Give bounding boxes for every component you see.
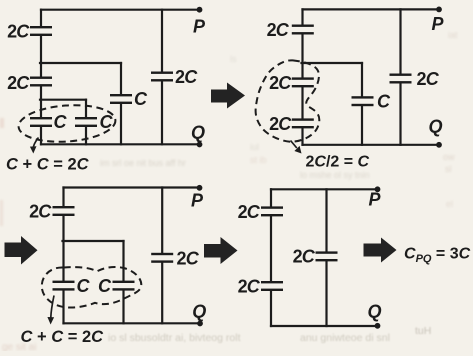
capacitor C (panel3, parallel pair left) xyxy=(53,281,75,291)
capacitor 2C (panel1, left branch lower) xyxy=(30,77,52,87)
capacitor 2C (panel2, series pair lower) xyxy=(292,118,314,128)
svg-text:anu gniwteoe di snl: anu gniwteoe di snl xyxy=(300,332,390,344)
svg-text:CPQ = 3C: CPQ = 3C xyxy=(404,246,471,266)
annotation leader arrow from ellipse to equation (panel1) xyxy=(30,138,39,154)
wire: panel3 right branch segment (above 2C) xyxy=(161,188,163,253)
annotation: dashed peanut loop around the two parallel C capacitors (panel3) xyxy=(42,267,142,308)
capacitor 2C (panel2, left branch top) xyxy=(292,25,314,35)
capacitor 2C (panel3, right branch) xyxy=(151,253,173,263)
svg-text:C: C xyxy=(77,276,91,296)
node P: terminal dot xyxy=(197,7,203,13)
svg-text:Q: Q xyxy=(192,301,206,321)
svg-text:2C: 2C xyxy=(175,67,198,87)
block arrow: to final result xyxy=(364,238,397,263)
svg-text:2C: 2C xyxy=(293,246,316,266)
svg-text:Q: Q xyxy=(191,123,205,143)
capacitor C (panel1, middle branch) xyxy=(110,94,132,104)
capacitor C (panel2, middle branch) xyxy=(352,96,374,106)
wire: panel4 left branch segment (top, above upper 2C) xyxy=(270,189,272,206)
svg-text:2C: 2C xyxy=(269,73,292,93)
wire: panel1 left branch segment (below second 2C) xyxy=(40,87,42,118)
svg-text:C: C xyxy=(100,112,114,132)
wire: panel2 right branch segment (above 2C) xyxy=(399,9,401,73)
svg-text:ow: ow xyxy=(443,152,455,162)
svg-text:ls: ls xyxy=(230,54,237,64)
wire: panel3 left branch segment (top, above 2C) xyxy=(62,188,64,207)
wire: panel4 left branch segment (below lower 2C) xyxy=(270,291,272,326)
wire: panel1 left branch segment (top, above 2C) xyxy=(40,10,42,26)
node P: terminal dot xyxy=(197,185,203,191)
wire: panel3 left branch segment (below parallel C, to bottom rail) xyxy=(62,291,64,324)
annotation leader arrow from kidney loop to equation (panel2) xyxy=(291,141,302,154)
capacitor C (panel1, parallel pair right) xyxy=(75,117,97,127)
node P: terminal dot xyxy=(436,6,442,12)
capacitor C (panel1, parallel pair left) xyxy=(30,117,52,127)
wire: panel1 left branch segment (between 2C and 2C) xyxy=(40,36,42,77)
wire: panel3 bottom rail (to node Q) xyxy=(64,322,201,324)
wire: panel1 right branch segment (below 2C) xyxy=(161,82,163,145)
svg-text:Q: Q xyxy=(367,302,381,322)
svg-text:C: C xyxy=(54,112,68,132)
wire: panel2 left branch segment (between second and third 2C) xyxy=(301,87,303,118)
svg-text:2C: 2C xyxy=(177,248,200,268)
wire: panel2 left branch segment (between first and second 2C) xyxy=(301,35,303,78)
wire: panel3 inner loop right branch (above C) xyxy=(122,241,124,281)
wire: panel1 left branch segment (below parallel C, to bottom rail) xyxy=(40,127,42,144)
svg-text:C: C xyxy=(134,89,148,109)
svg-text:el: el xyxy=(446,199,453,209)
svg-text:Q: Q xyxy=(428,116,442,136)
capacitor 2C (panel4, middle branch) xyxy=(316,251,338,261)
wire: panel1 middle branch segment (above C) xyxy=(120,63,122,94)
svg-text:sl: sl xyxy=(445,164,452,174)
wire: panel1 inner loop right branch (above C) xyxy=(85,100,87,117)
wire: panel1 junction wire to middle branch xyxy=(40,62,121,64)
annotation: dashed kidney loop around the two series 2C capacitors (panel2) xyxy=(256,60,320,141)
capacitor 2C (panel4, left branch lower) xyxy=(261,281,283,291)
wire: panel3 right branch segment (below 2C) xyxy=(161,263,163,324)
wire: panel4 middle branch segment (below 2C) xyxy=(325,261,327,326)
svg-text:im srl oe nit bus aff hr: im srl oe nit bus aff hr xyxy=(100,158,186,168)
wire: panel3 left branch segment (below 2C) xyxy=(62,216,64,281)
capacitor C (panel3, parallel pair right) xyxy=(113,281,135,291)
svg-text:2C: 2C xyxy=(238,277,261,297)
wire: panel2 left branch segment (top, above first 2C) xyxy=(301,9,303,24)
wire: panel2 bottom rail (to node Q) xyxy=(303,144,440,146)
wire: panel4 top rail (to node P) xyxy=(271,188,378,190)
wire: panel1 top rail (to node P) xyxy=(41,9,200,11)
wire: panel2 junction wire to middle branch xyxy=(302,62,363,64)
svg-text:st ib: st ib xyxy=(250,155,267,165)
svg-text:2C: 2C xyxy=(269,114,292,134)
block arrow: step 1 to step 2 xyxy=(211,83,245,109)
svg-text:tuH: tuH xyxy=(415,325,431,337)
wire: panel1 middle branch segment (below C) xyxy=(120,104,122,144)
annotation: dashed ellipse grouping the two parallel C capacitors (panel1) xyxy=(17,102,116,145)
svg-text:2C: 2C xyxy=(29,202,52,222)
svg-text:io sl sbusoldtr ai, bivteog ro: io sl sbusoldtr ai, bivteog rolt xyxy=(108,332,241,344)
capacitor 2C (panel2, right branch) xyxy=(390,74,412,84)
annotation leader arrow from peanut loop to equation (panel3) xyxy=(47,296,54,325)
wire: panel1 inner loop right branch (below C) xyxy=(85,127,87,144)
wire: panel1 bottom rail (to node Q) xyxy=(41,143,200,145)
capacitor 2C (panel3, left branch) xyxy=(53,206,75,216)
wire: panel3 inner loop right branch (below C) xyxy=(122,291,124,324)
block arrow: step 3 to step 4 xyxy=(204,237,238,264)
svg-text:P: P xyxy=(191,190,204,210)
wire: panel3 inner loop top rail xyxy=(63,240,124,242)
svg-text:iat: iat xyxy=(448,30,458,40)
svg-text:2C: 2C xyxy=(238,202,261,222)
capacitor 2C (panel4, left branch upper) xyxy=(261,206,283,216)
node Q: terminal dot xyxy=(197,321,203,327)
svg-text:2C: 2C xyxy=(7,22,30,42)
wire: panel2 middle branch segment (below C) xyxy=(361,106,363,145)
svg-text:lo mshe ol sy tnin: lo mshe ol sy tnin xyxy=(300,170,370,180)
wire: panel2 right branch segment (below 2C) xyxy=(399,84,401,145)
block arrow: into step 3 xyxy=(5,236,38,265)
wire: panel1 inner loop top rail xyxy=(40,99,86,101)
svg-text:P: P xyxy=(368,189,381,209)
wire: panel1 right branch segment (above 2C) xyxy=(161,10,163,72)
svg-text:C + C = 2C: C + C = 2C xyxy=(21,328,105,346)
node Q: terminal dot xyxy=(375,323,381,329)
svg-text:C + C = 2C: C + C = 2C xyxy=(6,155,90,173)
svg-text:2C: 2C xyxy=(7,73,30,93)
wire: panel4 bottom rail (to node Q) xyxy=(271,325,378,327)
capacitor 2C (panel1, left branch upper) xyxy=(30,26,52,36)
capacitor 2C (panel2, series pair upper) xyxy=(292,77,314,87)
node Q: terminal dot xyxy=(436,142,442,148)
wire: panel2 left branch segment (below third 2C) xyxy=(301,128,303,144)
svg-text:iul: iul xyxy=(250,142,259,152)
wire: panel3 top rail (to node P) xyxy=(64,186,200,188)
svg-text:P: P xyxy=(431,14,444,34)
wire: panel2 middle branch segment (above C) xyxy=(361,63,363,96)
svg-text:2C/2 = C: 2C/2 = C xyxy=(306,153,370,170)
svg-text:P: P xyxy=(193,17,206,37)
wire: panel4 left branch segment (between 2C and 2C) xyxy=(270,216,272,281)
svg-text:C: C xyxy=(98,276,112,296)
wire: panel2 top rail (to node P) xyxy=(303,8,440,10)
node Q: terminal dot xyxy=(197,142,203,148)
svg-text:2C: 2C xyxy=(417,69,440,89)
svg-text:C: C xyxy=(377,92,391,112)
svg-text:2C: 2C xyxy=(267,20,290,40)
capacitor 2C (panel1, right branch) xyxy=(151,72,173,82)
node P: terminal dot xyxy=(375,186,381,192)
wire: panel4 middle branch segment (above 2C) xyxy=(325,189,327,251)
